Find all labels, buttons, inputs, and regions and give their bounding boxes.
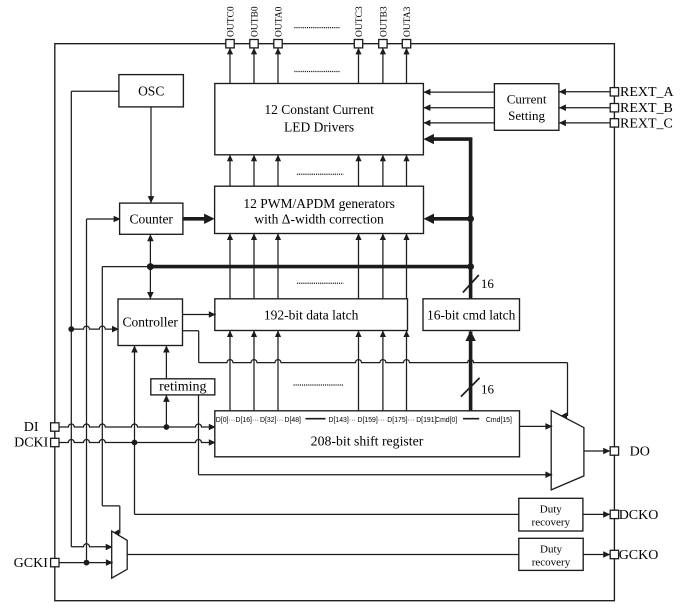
junction OSC/controller branch	[68, 326, 74, 332]
wire latch to PWM column 1	[227, 234, 233, 299]
wire DI to shift register	[59, 424, 216, 431]
wire shift register to latch column 2	[251, 331, 257, 411]
pin DI	[51, 423, 59, 431]
svg-text:recovery: recovery	[532, 556, 571, 568]
label REXT_A	[620, 85, 675, 100]
label OUTA0	[275, 6, 285, 37]
label DCKO	[619, 508, 659, 523]
svg-text:D[48]: D[48]	[285, 417, 302, 424]
svg-text:D[175]···: D[175]···	[387, 417, 414, 424]
wire latch to PWM column 5	[380, 234, 386, 299]
wire shift register to latch column 3	[275, 331, 281, 411]
label DO	[630, 445, 650, 460]
mux DO output select	[551, 411, 584, 490]
junction bus/PWM	[467, 215, 474, 222]
svg-text:208-bit shift register: 208-bit shift register	[311, 433, 424, 448]
wire OUTC0 output to pin	[227, 48, 233, 84]
svg-text:OUTA0: OUTA0	[275, 6, 285, 37]
wire PWM to LED column 2	[251, 155, 257, 186]
svg-text:GCKI: GCKI	[14, 556, 49, 571]
block 192-bit data latch	[215, 299, 408, 331]
svg-text:12 Constant Current: 12 Constant Current	[264, 102, 374, 117]
wire Current Setting to LED drivers B	[423, 104, 494, 111]
wire PWM to LED column 5	[380, 155, 386, 186]
svg-text:D[191]: D[191]	[416, 417, 436, 424]
junction bus/counter line	[467, 263, 474, 270]
block Duty recovery (DCKO)	[519, 498, 583, 531]
wire DCKI to Duty recovery DCKO	[135, 443, 519, 515]
svg-text:OUTC3: OUTC3	[355, 6, 365, 37]
svg-text:Controller: Controller	[122, 315, 178, 330]
wire shift register to DO mux input 1	[520, 423, 553, 430]
block OSC	[119, 75, 183, 107]
svg-text:REXT_B: REXT_B	[620, 101, 673, 116]
block Current Setting	[494, 84, 559, 131]
pin DO	[610, 447, 618, 455]
wire shift register to latch column 4	[355, 331, 361, 411]
svg-text:16: 16	[481, 276, 495, 291]
wire Controller to DO mux select	[183, 331, 570, 421]
label GCKO	[619, 548, 659, 563]
wire REXT_C to Current Setting	[559, 120, 610, 127]
junction DCKI branch	[132, 440, 138, 446]
junction DI/retiming	[164, 424, 170, 430]
pin OUTA3	[402, 40, 410, 48]
svg-text:GCKO: GCKO	[619, 548, 659, 563]
wire latch to PWM column 2	[251, 234, 257, 299]
label DI	[24, 420, 39, 435]
svg-text:Setting: Setting	[508, 108, 545, 123]
wire OSC bus to GCKI mux input	[71, 544, 112, 551]
pin DCKO	[610, 510, 618, 518]
wire DCKI to shift register	[59, 439, 216, 446]
svg-text:D[16]···: D[16]···	[236, 417, 259, 424]
block 16-bit cmd latch	[423, 299, 520, 331]
block Duty recovery (GCKO)	[519, 538, 583, 570]
svg-text:retiming: retiming	[159, 379, 206, 394]
label DCKI	[14, 436, 49, 451]
pin GCKO	[610, 550, 618, 558]
wire OSC to left bus	[71, 91, 119, 547]
svg-text:Duty: Duty	[540, 503, 563, 515]
svg-text:REXT_A: REXT_A	[620, 85, 675, 100]
dotted ellipsis between LED drivers and PWM	[297, 173, 344, 175]
pin OUTB0	[250, 40, 258, 48]
wire GCKI vertical bus	[86, 219, 88, 563]
wire OSC branch to Controller	[71, 326, 119, 333]
junction counter-controller/bus	[147, 263, 154, 270]
thick wire bus vertical	[469, 138, 473, 299]
svg-text:16: 16	[481, 381, 495, 396]
svg-text:192-bit data latch: 192-bit data latch	[264, 307, 359, 322]
thick wire bus to counter-controller line	[147, 263, 471, 270]
wire REXT_B to Current Setting	[559, 104, 610, 111]
block Controller	[118, 299, 183, 346]
wire select vertical	[101, 267, 103, 506]
wire PWM to LED column 4	[355, 155, 361, 186]
svg-text:OUTC0: OUTC0	[227, 6, 237, 37]
thick wire bus corner to LED drivers	[423, 134, 472, 144]
pin REXT_B	[610, 104, 618, 112]
wire Duty recovery to DCKO	[583, 511, 610, 518]
svg-text:D[32]···: D[32]···	[260, 417, 283, 424]
svg-text:Duty: Duty	[540, 543, 563, 555]
thick wire Counter to PWM	[183, 214, 215, 224]
bus width slash 16 upper	[463, 275, 479, 293]
wire Duty recovery to GCKO	[583, 551, 610, 558]
svg-text:recovery: recovery	[532, 516, 571, 528]
dotted ellipsis between data latch and shift register	[294, 384, 344, 386]
label 16 upper	[481, 276, 495, 291]
block 12 PWM/APDM generators	[215, 186, 424, 233]
wire OUTA0 output to pin	[275, 48, 281, 84]
svg-text:Current: Current	[507, 92, 547, 107]
label REXT_C	[620, 116, 673, 131]
wire latch to PWM column 4	[355, 234, 361, 299]
svg-text:REXT_C: REXT_C	[620, 116, 673, 131]
wire PWM to LED column 1	[227, 155, 233, 186]
wire Current Setting to LED drivers C	[423, 120, 494, 127]
block Counter	[120, 203, 183, 234]
pin REXT_A	[610, 88, 618, 96]
label OUTA3	[403, 6, 413, 37]
svg-text:DI: DI	[24, 420, 39, 435]
wire OUTB3 output to pin	[380, 48, 386, 84]
pin OUTA0	[274, 40, 282, 48]
wire select to GCKI mux	[102, 506, 122, 538]
wire PWM to LED column 3	[275, 155, 281, 186]
wire latch to PWM column 6	[403, 234, 409, 299]
wire latch to PWM column 3	[275, 234, 281, 299]
wire select stub to bus junction	[102, 266, 150, 268]
thick wire cmd latch to shift register	[465, 331, 475, 411]
wire shift register to latch column 5	[380, 331, 386, 411]
svg-text:16-bit cmd latch: 16-bit cmd latch	[427, 307, 516, 322]
chip outer border	[55, 44, 615, 601]
svg-text:LED Drivers: LED Drivers	[284, 119, 354, 134]
wire REXT_A to Current Setting	[559, 89, 610, 96]
wire OUTB0 output to pin	[251, 48, 257, 84]
wire OUTA3 output to pin	[403, 48, 409, 84]
labels shift register bit ranges	[216, 417, 512, 424]
svg-text:DO: DO	[630, 445, 650, 460]
block 208-bit shift register	[215, 411, 520, 457]
wire shift register to latch column 6	[403, 331, 409, 411]
pin REXT_C	[610, 119, 618, 127]
wire DO mux to DO pin	[584, 448, 610, 455]
bus width slash 16 lower	[461, 378, 480, 397]
dotted ellipsis between OUT pin labels	[294, 27, 340, 29]
svg-text:D[159]···: D[159]···	[358, 417, 385, 424]
svg-text:OSC: OSC	[138, 83, 164, 98]
wire DI to retiming	[163, 395, 170, 427]
block 12 Constant Current LED Drivers	[215, 84, 424, 155]
svg-text:DCKO: DCKO	[619, 508, 659, 523]
wire DCKI to Controller	[131, 346, 138, 443]
svg-text:Cmd[0]: Cmd[0]	[435, 417, 457, 424]
svg-text:D[0]···: D[0]···	[216, 417, 236, 424]
thick wire bus to PWM generators	[424, 214, 471, 224]
wire OUTC3 output to pin	[355, 48, 361, 84]
svg-text:OUTB0: OUTB0	[251, 6, 261, 37]
wire PWM to LED column 6	[403, 155, 409, 186]
block retiming	[151, 379, 215, 395]
dotted ellipsis below OUT pins	[294, 71, 340, 73]
pin GCKI	[51, 558, 59, 566]
wire GCKI bus to Counter	[87, 216, 121, 223]
mux GCKI input select	[112, 531, 128, 578]
pin OUTC0	[226, 40, 234, 48]
wire retiming to Controller	[163, 346, 170, 379]
svg-text:OUTB3: OUTB3	[379, 6, 389, 37]
wire Current Setting to LED drivers A	[423, 89, 494, 96]
wire shift register to latch column 1	[227, 331, 233, 411]
label REXT_B	[620, 101, 673, 116]
label OUTC0	[227, 6, 237, 37]
wire Counter to Controller	[147, 234, 154, 299]
dotted ellipsis between PWM and data latch	[297, 282, 344, 284]
junction GCKI/counter bus	[84, 560, 90, 566]
label OUTB3	[379, 6, 389, 37]
label 16 lower	[481, 381, 495, 396]
label GCKI	[14, 556, 49, 571]
svg-text:DCKI: DCKI	[14, 436, 49, 451]
pin OUTB3	[379, 40, 387, 48]
svg-text:with Δ-width correction: with Δ-width correction	[254, 212, 384, 227]
svg-text:Cmd[15]: Cmd[15]	[486, 417, 512, 424]
svg-text:Counter: Counter	[129, 211, 173, 226]
wire GCKI to mux	[59, 559, 113, 566]
wire Controller to data latch	[183, 311, 216, 318]
wire retiming to DO mux input 2	[199, 395, 553, 478]
label OUTC3	[355, 6, 365, 37]
svg-text:D[143]···: D[143]···	[329, 417, 356, 424]
wire GCKI mux to Duty recovery GCKO	[127, 554, 519, 556]
label OUTB0	[251, 6, 261, 37]
wire OSC to Counter	[148, 107, 155, 203]
pin OUTC3	[354, 40, 362, 48]
pin DCKI	[51, 438, 59, 446]
svg-text:12 PWM/APDM generators: 12 PWM/APDM generators	[243, 196, 395, 211]
svg-text:OUTA3: OUTA3	[403, 6, 413, 37]
